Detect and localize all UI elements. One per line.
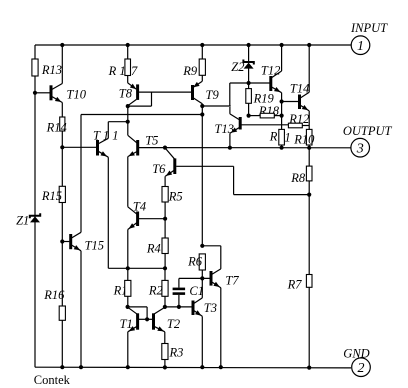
wire T3 emitter to ground bus bbox=[201, 316, 203, 367]
node rail dot at T12 collector column bbox=[280, 43, 284, 47]
wire R18 right lead bbox=[274, 115, 281, 117]
node dot T15 base junction bbox=[60, 239, 64, 243]
node dot Z2/T12-base junction bbox=[247, 81, 251, 85]
wire T1 base-collector loop bbox=[128, 306, 148, 308]
svg-text:3: 3 bbox=[356, 141, 364, 156]
node dot R19/R18 junction bbox=[247, 114, 251, 118]
node rail dot at R9 column bbox=[200, 43, 204, 47]
node dot T15 emitter at ground bus bbox=[79, 365, 83, 369]
wire T6 base feedback line bbox=[176, 165, 233, 167]
wire T10 emitter to R14 bbox=[61, 103, 63, 118]
wire bus to R2 bbox=[164, 268, 166, 280]
svg-text:T8: T8 bbox=[119, 87, 133, 101]
wire branch to T7 collector bbox=[202, 245, 221, 247]
wire C1 to T3 base line bbox=[178, 295, 180, 307]
wire T12 emitter column down through junctions to R11 bbox=[281, 93, 283, 130]
wire R19 to R18 bbox=[248, 103, 250, 115]
svg-text:INPUT: INPUT bbox=[350, 21, 388, 35]
wire rail to T10 collector bbox=[61, 45, 63, 84]
resistor R8 bbox=[306, 166, 312, 181]
node dot T4 emitter at bus bbox=[126, 266, 130, 270]
resistor R16 bbox=[59, 306, 65, 320]
wire T8-T9 shared base line bbox=[139, 91, 191, 93]
node dot T3 emitter at ground bus bbox=[200, 365, 204, 369]
transistor T9 (PNP) bbox=[191, 85, 194, 100]
wire rail to T14 collector bbox=[308, 45, 310, 92]
transistor T14 bbox=[298, 95, 301, 110]
node dot R10 at output bus bbox=[307, 146, 311, 150]
resistor R12 bbox=[288, 123, 302, 128]
wire T11 emitter vertical bbox=[107, 157, 109, 268]
resistor R11 bbox=[279, 129, 285, 145]
wire R6 to T7 base line / T3 collector bbox=[201, 270, 203, 298]
wire R10 to output bus bbox=[308, 145, 310, 148]
transistor T1 (diode-connected) bbox=[136, 313, 139, 329]
wire T1-T2 base line bbox=[139, 318, 152, 320]
node dot T13 emitter at output bus bbox=[228, 146, 232, 150]
svg-text:R16: R16 bbox=[43, 288, 65, 302]
node OUTPUT horizontal output bus wire bbox=[139, 147, 351, 149]
wire T5 emitter to T4 collector bbox=[127, 157, 129, 207]
node dot T9 collector junction bbox=[200, 104, 204, 108]
transistor T8 (PNP, diode-connected) bbox=[136, 84, 139, 100]
wire R5 to R4 with T4 base tap bbox=[164, 202, 166, 238]
node dot T1 emitter at ground bus bbox=[126, 365, 130, 369]
wire R16 to ground bus bbox=[61, 320, 63, 367]
wire R1 to T1 collector node bbox=[127, 296, 129, 307]
terminal INPUT pin 1 circle bbox=[351, 36, 370, 55]
resistor R18 bbox=[260, 113, 274, 118]
svg-text:T10: T10 bbox=[67, 88, 87, 102]
svg-text:1: 1 bbox=[357, 39, 364, 54]
wire T7 base line to C1 bbox=[178, 278, 180, 287]
transistor T15 bbox=[69, 234, 72, 249]
svg-text:T6: T6 bbox=[152, 162, 166, 176]
svg-text:Contek: Contek bbox=[34, 373, 71, 387]
resistor R13 bbox=[32, 59, 38, 76]
node dot T2 collector/R2/T3-base junction bbox=[163, 305, 167, 309]
node VCC top supply rail wire bbox=[35, 44, 352, 46]
svg-text:R6: R6 bbox=[187, 255, 203, 269]
wire bus to R1 bbox=[127, 268, 129, 280]
svg-text:Z2: Z2 bbox=[231, 60, 244, 74]
wire T9 collector down to junction bbox=[201, 104, 203, 106]
wire rail to Z2 bbox=[248, 45, 250, 62]
resistor R17 bbox=[125, 59, 131, 76]
transistor T6 bbox=[173, 158, 176, 174]
node dot R3 at ground bus bbox=[163, 365, 167, 369]
svg-text:OUTPUT: OUTPUT bbox=[343, 124, 393, 138]
zener diode Z2 bbox=[243, 60, 253, 65]
svg-text:R 1: R 1 bbox=[108, 64, 126, 78]
wire output bus to R8 bbox=[308, 148, 310, 167]
resistor R1 bbox=[125, 280, 131, 296]
node dot T7 emitter at ground bus bbox=[219, 365, 223, 369]
node dot R6 top / T7 collector branch bbox=[200, 244, 204, 248]
resistor R4 bbox=[162, 238, 168, 254]
node dot base loop junction bbox=[145, 317, 149, 321]
wire R15 to R16 with T15 base tap bbox=[61, 203, 63, 307]
node rail dot at T10 collector column bbox=[60, 43, 64, 47]
wire T7 emitter to ground bus bbox=[220, 288, 222, 368]
wire R3 to ground bus bbox=[164, 360, 166, 368]
node dot R14/R15/T11-base junction bbox=[60, 145, 64, 149]
terminal OUTPUT pin 3 circle bbox=[351, 138, 370, 157]
node dot T8 collector junction bbox=[126, 104, 130, 108]
node dot T11 collector link at T5 column bbox=[126, 120, 130, 124]
svg-text:T5: T5 bbox=[145, 133, 158, 147]
svg-text:7: 7 bbox=[131, 64, 138, 78]
wire T8 collector column down to T5 collector bbox=[127, 106, 129, 135]
transistor T10 bbox=[50, 85, 53, 100]
node dot output bus tap for T6 collector bbox=[163, 146, 167, 150]
resistor R10 bbox=[306, 129, 312, 145]
node dot T1 collector/R1 junction bbox=[126, 305, 130, 309]
capacitor C1 bbox=[173, 288, 186, 291]
wire T15 emitter to ground bus bbox=[80, 251, 82, 367]
zener diode Z1 bbox=[30, 213, 40, 218]
svg-text:R13: R13 bbox=[41, 63, 62, 77]
svg-text:Z1: Z1 bbox=[16, 214, 29, 228]
wire R11 to output bus bbox=[281, 145, 283, 148]
svg-text:R4: R4 bbox=[146, 242, 161, 256]
wire T4 emitter down to emitter bus bbox=[127, 230, 129, 269]
wire T8 base-collector loop bbox=[151, 92, 153, 106]
resistor R5 bbox=[162, 187, 168, 203]
svg-text:R10: R10 bbox=[293, 133, 315, 147]
svg-text:T3: T3 bbox=[204, 301, 217, 315]
node dot R18 at T12 emitter column bbox=[280, 114, 284, 118]
transistor T3 bbox=[192, 301, 195, 316]
node dot feedback divider junction bbox=[307, 193, 311, 197]
node dot R7 at ground bus bbox=[307, 366, 311, 370]
node T10 base junction dot on left column bbox=[33, 91, 37, 95]
svg-text:R9: R9 bbox=[182, 64, 198, 78]
node dot T7 base junction bbox=[200, 276, 204, 280]
wire T4 base lead to R5/R4 junction bbox=[139, 218, 165, 220]
svg-text:1: 1 bbox=[285, 131, 291, 145]
svg-text:T14: T14 bbox=[290, 82, 309, 96]
svg-text:R15: R15 bbox=[41, 189, 62, 203]
wire rail to R17 bbox=[127, 45, 129, 59]
wire T11 base line from R14/R15 tap bbox=[62, 146, 96, 148]
wire R9 to T9 emitter bbox=[201, 75, 203, 81]
wire R4 to emitter bus bbox=[164, 254, 166, 269]
wire Z2 to R19 crossing T12-base line bbox=[248, 69, 250, 89]
resistor R2 bbox=[162, 280, 168, 296]
node dot T14 base junction bbox=[280, 99, 284, 103]
wire corner down from T12-base line to T9/T13 junction bbox=[229, 83, 231, 106]
node rail dot at R17 column bbox=[126, 43, 130, 47]
node dot R11 at output bus bbox=[280, 146, 284, 150]
wire R2 to T2 collector node bbox=[164, 296, 166, 307]
svg-text:T7: T7 bbox=[225, 274, 239, 288]
svg-text:T1: T1 bbox=[120, 317, 133, 331]
wire T6 emitter to R5 bbox=[164, 176, 166, 186]
transistor T7 bbox=[210, 271, 213, 286]
svg-text:T4: T4 bbox=[133, 199, 146, 213]
svg-text:R2: R2 bbox=[148, 284, 163, 298]
svg-text:T13: T13 bbox=[215, 122, 234, 136]
node dot C1 at T3 base line bbox=[177, 305, 181, 309]
wire T13 emitter to output bus bbox=[229, 133, 231, 147]
wire R18 left lead bbox=[249, 115, 261, 117]
node dot T4 base junction bbox=[163, 217, 167, 221]
node dot R4/emitter-bus junction bbox=[163, 266, 167, 270]
wire internal bus from T15/T11 collectors to T9 collector column bbox=[81, 114, 202, 116]
wire R7 to ground bus bbox=[308, 287, 310, 367]
resistor R14 bbox=[60, 117, 65, 131]
node dot internal bus end at T9 column bbox=[200, 112, 204, 116]
transistor T4 bbox=[136, 212, 139, 227]
wire T3 base line bbox=[165, 306, 192, 308]
svg-text:T 1 1: T 1 1 bbox=[93, 129, 118, 143]
wire R17 to T8 emitter bbox=[127, 76, 129, 83]
svg-text:R8: R8 bbox=[290, 171, 306, 185]
wire R14 to R15 with T11 base tap bbox=[61, 131, 63, 186]
node dot R16 at ground bus bbox=[60, 365, 64, 369]
resistor R15 bbox=[59, 186, 65, 202]
wire R12 right lead bbox=[302, 125, 309, 127]
wire vertical link bus to T15 collector bbox=[80, 115, 82, 233]
node rail dot at T14 collector column bbox=[307, 43, 311, 47]
resistor R9 bbox=[199, 59, 205, 75]
wire T1 emitter to ground bus bbox=[127, 332, 129, 367]
terminal GND pin 2 circle bbox=[352, 358, 371, 377]
transistor T12 bbox=[269, 76, 272, 91]
wire R8 to feedback node bbox=[308, 181, 310, 275]
resistor R7 bbox=[306, 275, 312, 288]
wire T13 base to R12 line bbox=[242, 124, 289, 126]
resistor R6 bbox=[199, 254, 205, 270]
transistor T13 bbox=[239, 117, 242, 130]
wire emitter bus of T11/T4 region horizontal bbox=[108, 267, 165, 269]
svg-text:2: 2 bbox=[358, 361, 365, 376]
wire rail to T12 collector bbox=[281, 45, 283, 71]
svg-text:R5: R5 bbox=[168, 190, 183, 204]
wire T14 emitter to R12 corner and R10 bbox=[308, 111, 310, 129]
svg-text:R3: R3 bbox=[169, 346, 184, 360]
svg-text:T15: T15 bbox=[85, 239, 104, 253]
svg-text:T9: T9 bbox=[206, 88, 220, 102]
wire T11 collector link to T5 base column bbox=[107, 122, 109, 139]
transistor T5 bbox=[136, 140, 139, 156]
wire T9 collector column down to R6 bbox=[201, 106, 203, 246]
transistor T2 bbox=[152, 313, 155, 329]
svg-text:T12: T12 bbox=[261, 64, 280, 78]
svg-text:R7: R7 bbox=[287, 277, 303, 291]
resistor R19 bbox=[246, 89, 252, 104]
node rail dot at Z2 column bbox=[247, 43, 251, 47]
wire T9 collector to T13 column bbox=[202, 105, 230, 107]
wire left column (R13/Z1 branch) from rail to ground bus bbox=[34, 45, 36, 367]
transistor T11 bbox=[96, 140, 99, 156]
resistor R3 bbox=[162, 344, 168, 360]
wire Z2/R19/T12 base node horizontal bbox=[230, 82, 270, 84]
wire rail to R9 bbox=[201, 45, 203, 59]
wire T2 emitter to R3 bbox=[164, 332, 166, 344]
svg-text:T2: T2 bbox=[167, 317, 180, 331]
svg-text:R14: R14 bbox=[46, 121, 67, 135]
node GND bottom ground bus wire bbox=[35, 366, 351, 369]
